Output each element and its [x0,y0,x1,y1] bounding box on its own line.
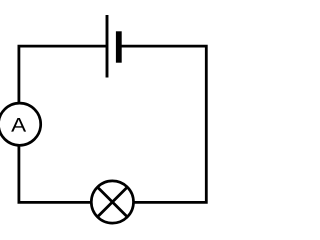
ammeter A1 circle [0,103,41,145]
wire: bottom run from lamp, up right side to cell [122,46,207,202]
svg-text:A: A [11,115,27,137]
lamp circle [91,181,133,223]
wire: top-left segment from cell to left side, down to ammeter [19,46,107,103]
lamp cross stroke 2 [98,187,128,217]
cell long positive plate [106,15,109,78]
lamp cross stroke 1 [98,187,128,217]
cell short thick negative plate [116,31,122,62]
wire: left side below ammeter, bottom run to lamp [19,145,92,202]
